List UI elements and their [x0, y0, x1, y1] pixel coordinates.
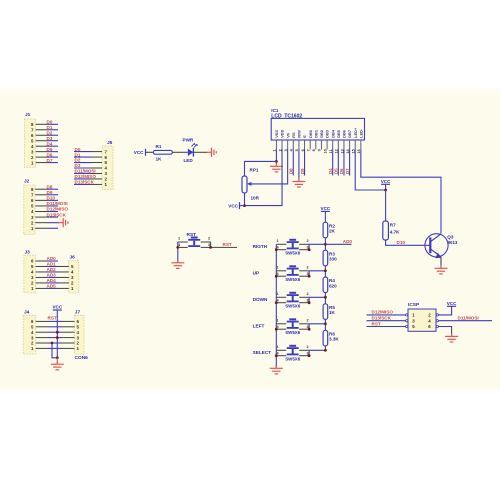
svg-text:1: 1	[277, 239, 279, 243]
svg-text:DB3: DB3	[325, 129, 330, 138]
svg-text:2: 2	[307, 345, 309, 349]
wires D0-D7 from J1	[47, 120, 59, 163]
svg-text:RST: RST	[372, 321, 381, 326]
svg-text:D7: D7	[345, 168, 350, 174]
svg-text:D0: D0	[47, 120, 53, 125]
wire VSS (pin1) down	[275, 150, 277, 162]
wire R7 to Q3 base, net D10	[386, 240, 431, 246]
svg-text:D7: D7	[47, 158, 53, 163]
svg-text:D3: D3	[75, 163, 81, 168]
resistor R1 1K	[153, 144, 172, 161]
svg-text:J5: J5	[107, 140, 113, 146]
wire UP right side	[309, 271, 325, 276]
LED PWR	[183, 138, 199, 164]
svg-text:D5: D5	[47, 147, 53, 152]
svg-text:D8: D8	[288, 168, 293, 174]
svg-text:DB0: DB0	[308, 130, 313, 138]
svg-text:D10: D10	[397, 240, 406, 245]
svg-text:10: 10	[323, 149, 327, 153]
svg-text:D4: D4	[328, 168, 333, 174]
wires D8-D13 from J2	[47, 184, 69, 217]
svg-text:D0: D0	[75, 147, 81, 152]
svg-text:LED-: LED-	[358, 128, 363, 138]
svg-text:PWR: PWR	[183, 138, 194, 143]
wire junction to R7	[385, 190, 387, 221]
svg-text:SW5X6: SW5X6	[285, 330, 300, 335]
svg-text:AD2: AD2	[47, 267, 57, 272]
wire LEFT right side	[309, 324, 325, 329]
resistor R4 620	[323, 277, 337, 293]
wire LED+ (pin15) to VCC junction	[355, 150, 385, 191]
wire SELECT right side	[309, 350, 325, 355]
push button UP SW5X6	[253, 271, 260, 276]
wires AD0-AD5 J3 to J6	[46, 256, 58, 288]
wire R1 to LED	[172, 151, 188, 153]
svg-text:2K: 2K	[329, 229, 336, 234]
svg-text:2: 2	[307, 318, 309, 322]
svg-text:2: 2	[307, 265, 309, 269]
ground below Q3	[435, 265, 448, 274]
svg-text:9: 9	[318, 149, 322, 151]
svg-text:330: 330	[329, 257, 337, 262]
wire LED to ground	[193, 151, 207, 153]
ground below VSS	[270, 163, 283, 172]
wire RIGTH right side	[309, 244, 325, 249]
svg-text:4.7K: 4.7K	[390, 230, 400, 235]
svg-text:2: 2	[208, 237, 210, 241]
svg-text:RIGTH: RIGTH	[253, 244, 268, 249]
svg-text:SW5X6: SW5X6	[285, 277, 300, 282]
svg-text:AD0: AD0	[343, 239, 353, 244]
svg-text:D8: D8	[47, 184, 53, 189]
svg-text:D11/MOSI: D11/MOSI	[75, 169, 96, 174]
junction VCC/LED+/R7	[384, 189, 387, 192]
svg-text:DB5: DB5	[336, 129, 341, 138]
push button DOWN SW5X6	[253, 297, 268, 302]
svg-text:UP: UP	[253, 271, 260, 276]
svg-text:DB7: DB7	[347, 130, 352, 138]
svg-text:VCC: VCC	[228, 204, 238, 209]
connector J4	[23, 310, 47, 355]
svg-text:RS: RS	[291, 132, 296, 138]
svg-text:CON6: CON6	[75, 355, 89, 361]
transistor Q3 9013	[425, 234, 458, 259]
junction ladder 5	[324, 349, 327, 352]
power VCC at R7	[381, 179, 391, 190]
junction RST right	[209, 246, 212, 249]
svg-text:R7: R7	[390, 223, 396, 228]
wire below R6	[324, 346, 326, 350]
wire ICSP pin4, net D11/MOSI	[438, 316, 492, 321]
wire below R5	[324, 319, 326, 323]
svg-text:VDD: VDD	[280, 129, 285, 137]
wire RST button right, net RST	[211, 242, 237, 247]
resistor R7 4.7K	[383, 221, 400, 240]
svg-text:DB2: DB2	[319, 129, 324, 138]
svg-text:V0: V0	[285, 133, 290, 138]
svg-text:D1: D1	[47, 125, 53, 130]
svg-text:RP1: RP1	[250, 168, 259, 173]
svg-text:D10: D10	[47, 196, 56, 201]
svg-text:SW5X6: SW5X6	[285, 251, 300, 256]
connector J3	[24, 250, 46, 293]
svg-text:J1: J1	[25, 112, 31, 118]
wires D0-D3,D11/MOSI,D12/MISO,D13/SCK to J5	[74, 147, 96, 185]
connector J5	[92, 140, 114, 190]
wire below R3	[324, 266, 326, 271]
wire V0 (pin3) to RP1 wiper	[248, 150, 287, 184]
svg-text:LEFT: LEFT	[253, 324, 265, 329]
svg-text:D13/SCK: D13/SCK	[75, 180, 95, 185]
wire ground rail (left of buttons)	[275, 244, 277, 368]
svg-text:VCC: VCC	[381, 179, 391, 184]
svg-text:1K: 1K	[329, 310, 336, 315]
junction J4 pin4	[56, 331, 59, 334]
LCD module IC1 LCD_TC1602	[271, 108, 364, 154]
power VCC at ICSP	[447, 301, 457, 307]
connector ICSP	[406, 302, 439, 331]
wire LED- (pin16) to Q3 collector	[361, 150, 441, 234]
resistor R6 3.3K	[323, 330, 339, 346]
power VCC at RP1	[228, 202, 244, 209]
power VCC at R1	[134, 149, 146, 156]
svg-text:LED: LED	[184, 158, 194, 163]
wire J2 pin2 to ground	[47, 222, 59, 224]
svg-text:IC1: IC1	[271, 108, 279, 113]
svg-text:D11/MOSI: D11/MOSI	[458, 316, 479, 321]
junction RST left	[176, 246, 179, 249]
svg-text:DOWN: DOWN	[253, 297, 268, 302]
junction RIGTH right	[308, 248, 311, 251]
push button LEFT SW5X6	[253, 324, 265, 329]
ground below RST	[171, 260, 184, 269]
junction LEFT right	[308, 328, 311, 331]
junction DOWN right	[308, 301, 311, 304]
svg-text:10R: 10R	[251, 196, 260, 201]
connector J7	[62, 310, 88, 361]
wire VCC to R2	[324, 211, 326, 222]
wire R2 junction down	[324, 244, 326, 250]
wire R5 junction down	[324, 324, 326, 331]
connector J6	[58, 255, 79, 293]
ground (sideways) after LED	[207, 148, 216, 157]
wire RP1 bottom	[244, 193, 246, 206]
svg-text:D3: D3	[47, 136, 53, 141]
svg-text:D4: D4	[47, 141, 53, 146]
svg-text:J6: J6	[70, 255, 76, 261]
svg-text:D1: D1	[75, 152, 81, 157]
power VCC at R2	[321, 206, 331, 211]
wire below R4	[324, 293, 326, 298]
svg-text:D12/MISO: D12/MISO	[47, 207, 69, 212]
wires ICSP left: D12/MISO, D13/SCK, RST	[367, 310, 406, 327]
wires DB4-DB7 nets D4-D7	[328, 150, 350, 176]
connector J2	[24, 179, 47, 235]
svg-text:J7: J7	[75, 310, 81, 316]
wire DOWN right side	[309, 297, 325, 302]
wire ICSP pin2 to VCC	[438, 306, 451, 315]
svg-text:Q3: Q3	[447, 235, 454, 240]
junction at J4 pin2	[51, 342, 54, 345]
wire RP1 top to VSS junction	[245, 161, 277, 176]
junction SELECT right	[308, 354, 311, 357]
ground below J4/J7	[51, 361, 64, 370]
wire ICSP pin6 to ground	[438, 327, 451, 337]
wire net AD0	[325, 239, 352, 245]
svg-text:VCC: VCC	[134, 150, 144, 155]
svg-text:SELECT: SELECT	[253, 350, 272, 355]
svg-text:D6: D6	[47, 152, 53, 157]
svg-text:R/W: R/W	[297, 130, 302, 138]
svg-text:2: 2	[307, 239, 309, 243]
svg-text:D11/MOSI: D11/MOSI	[47, 201, 68, 206]
svg-text:AD5: AD5	[47, 284, 57, 289]
svg-text:D5: D5	[334, 168, 339, 174]
svg-text:SW5X6: SW5X6	[285, 304, 300, 309]
svg-text:9013: 9013	[448, 240, 458, 245]
junction UP right	[308, 275, 311, 278]
wire R3 junction down	[324, 271, 326, 277]
resistor R5 1K	[323, 304, 335, 320]
svg-text:J3: J3	[25, 250, 31, 256]
junctions on ground rail	[275, 248, 278, 357]
svg-text:LED+: LED+	[353, 127, 358, 138]
svg-text:8: 8	[312, 149, 316, 151]
svg-text:VCC: VCC	[321, 206, 331, 211]
push button SELECT SW5X6	[253, 350, 272, 355]
wire R/W (pin5) to ground	[298, 150, 300, 182]
svg-text:DB1: DB1	[313, 129, 318, 138]
junction ladder 3	[324, 296, 327, 299]
junction VSS/RP1	[275, 160, 278, 163]
wire VCC to R1	[146, 151, 154, 153]
wire R4 junction down	[324, 297, 326, 304]
svg-text:D2: D2	[75, 158, 81, 163]
ground below R/W	[292, 178, 305, 187]
resistor R2 2K	[323, 222, 335, 238]
wire J2 pin1	[47, 227, 58, 229]
svg-text:J2: J2	[24, 179, 30, 185]
wire stub to ground	[56, 358, 58, 364]
junction at ground corner	[56, 356, 59, 359]
wire E (pin6) net D9	[300, 150, 305, 176]
junction RP1/VCC/VDD	[243, 204, 246, 207]
wire RS (pin4) net D8	[288, 150, 293, 176]
svg-text:D9: D9	[300, 168, 305, 174]
ground below ICSP	[445, 333, 458, 342]
svg-text:AD4: AD4	[47, 278, 57, 283]
wires J4 to J7	[48, 321, 63, 348]
wire J4 pin2 to ground	[52, 343, 57, 358]
wire VDD (pin2) to VCC	[245, 150, 283, 206]
svg-text:D12/MISO: D12/MISO	[75, 174, 97, 179]
svg-text:AD0: AD0	[47, 256, 57, 261]
junction ladder 2	[324, 269, 327, 272]
potentiometer RP1 10R	[242, 168, 260, 201]
svg-text:RST: RST	[223, 242, 232, 247]
svg-text:R1: R1	[156, 144, 162, 149]
ground (sideways) at J2 pin2	[59, 218, 68, 227]
junction ladder 4	[324, 322, 327, 325]
wire RST button left to ground	[177, 242, 179, 263]
svg-text:SW5X6: SW5X6	[285, 357, 300, 362]
svg-text:2: 2	[307, 292, 309, 296]
svg-text:AD1: AD1	[47, 262, 57, 267]
svg-text:DB6: DB6	[342, 129, 347, 138]
svg-text:1: 1	[178, 237, 180, 241]
svg-text:ICSP: ICSP	[408, 302, 420, 308]
svg-text:VSS: VSS	[274, 130, 279, 138]
wire VSS junction to ground	[275, 161, 277, 166]
svg-text:DB4: DB4	[330, 129, 335, 138]
svg-text:VCC: VCC	[52, 304, 62, 309]
wire below R2	[324, 238, 326, 245]
wire VCC vertical at J4/J7	[56, 310, 58, 358]
svg-text:AD3: AD3	[47, 273, 57, 278]
svg-text:E: E	[302, 135, 307, 138]
svg-text:D12/MISO: D12/MISO	[372, 310, 394, 315]
power VCC at J4/J7	[52, 304, 62, 310]
svg-text:620: 620	[329, 283, 337, 288]
svg-text:RST: RST	[48, 316, 57, 321]
wire Q3 emitter to ground	[440, 257, 442, 269]
svg-text:1K: 1K	[156, 157, 163, 162]
junction ladder 1	[324, 243, 327, 246]
push button RST	[187, 232, 197, 238]
svg-text:J4: J4	[24, 310, 30, 316]
svg-text:D6: D6	[339, 168, 344, 174]
svg-text:D13/SCK: D13/SCK	[47, 212, 67, 217]
resistor R3 330	[323, 250, 337, 266]
push button RIGTH SW5X6	[253, 244, 268, 249]
svg-text:VCC: VCC	[447, 301, 457, 306]
svg-text:D9: D9	[47, 190, 53, 195]
svg-text:3.3K: 3.3K	[329, 337, 339, 342]
junction J4 pin3	[56, 336, 59, 339]
svg-text:D13/SCK: D13/SCK	[372, 316, 392, 321]
connector J1	[25, 112, 48, 167]
ground below button column	[270, 365, 283, 374]
svg-text:7: 7	[306, 149, 310, 151]
svg-text:D2: D2	[47, 130, 53, 135]
